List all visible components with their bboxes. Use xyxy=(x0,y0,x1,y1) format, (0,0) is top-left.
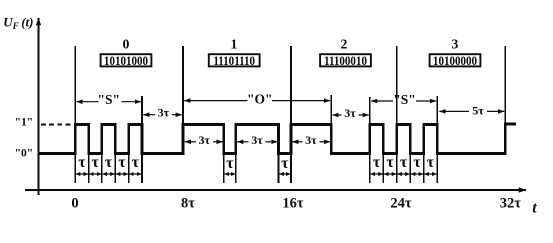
axis label 16tau xyxy=(282,195,304,211)
group number 1 xyxy=(231,37,238,52)
marker boundary line bit24|25 xyxy=(409,124,411,183)
axis label 8tau xyxy=(181,195,195,211)
dashed level-1 reference line xyxy=(41,124,74,126)
tau labels S2 xyxy=(373,154,435,171)
separator 32tau xyxy=(504,46,506,155)
marker boundary line dash1 fall xyxy=(223,124,225,183)
arrow O span xyxy=(184,100,330,102)
group number 0 xyxy=(123,37,130,52)
svg-text:8τ: 8τ xyxy=(181,195,195,211)
axis label 24tau xyxy=(390,195,412,211)
separator 16tau xyxy=(290,46,292,183)
label 3tau gap1 xyxy=(158,106,170,120)
marker boundary line bit4|5 (end of first S) xyxy=(141,96,143,183)
separator 8tau xyxy=(182,46,184,155)
svg-text:0: 0 xyxy=(71,195,78,211)
marker boundary line bit1|2 xyxy=(101,124,103,183)
svg-text:τ: τ xyxy=(78,154,86,171)
svg-text:0: 0 xyxy=(123,37,130,52)
svg-text:τ: τ xyxy=(373,154,381,171)
label U_F(t) xyxy=(3,15,33,31)
svg-text:τ: τ xyxy=(386,154,394,171)
code box group 0 xyxy=(101,54,152,66)
tau width arrows group S2 xyxy=(371,173,437,175)
code box group 2 xyxy=(320,54,371,66)
svg-text:10100000: 10100000 xyxy=(433,53,477,68)
waveform U_F(t) pulse train xyxy=(39,124,517,154)
svg-text:τ: τ xyxy=(92,154,100,171)
marker boundary line dash2 fall xyxy=(278,124,280,183)
code box group 3 xyxy=(430,54,481,66)
arrow 3tau dash2 width xyxy=(237,141,277,143)
marker boundary line bit25|26 xyxy=(423,124,425,183)
svg-text:t: t xyxy=(532,199,537,216)
label 3tau dash1 xyxy=(199,133,211,147)
label level 0 xyxy=(15,148,34,160)
label 5tau xyxy=(472,104,484,118)
marker boundary line bit3|4 xyxy=(128,124,130,183)
svg-text:UF (t): UF (t) xyxy=(3,15,33,31)
svg-text:3τ: 3τ xyxy=(344,106,356,120)
code 11101110 xyxy=(213,53,255,68)
marker boundary line bit22|23 xyxy=(382,124,384,183)
axis label t xyxy=(532,199,537,216)
label 3tau gap2 xyxy=(344,106,356,120)
svg-text:10101000: 10101000 xyxy=(104,53,148,68)
x-axis (time axis) xyxy=(25,189,526,191)
code 10100000 xyxy=(433,53,477,68)
svg-text:3τ: 3τ xyxy=(199,133,211,147)
svg-text:5τ: 5τ xyxy=(472,104,484,118)
arrow 5tau tail gap xyxy=(439,110,504,112)
svg-text:τ: τ xyxy=(413,154,421,171)
svg-text:"S": "S" xyxy=(98,92,121,107)
y-axis xyxy=(38,18,40,195)
axis label 0 xyxy=(71,195,78,211)
group number 2 xyxy=(341,37,348,52)
label 3tau dash3 xyxy=(305,133,317,147)
axis label 32tau xyxy=(500,195,522,211)
arrow S1 span xyxy=(76,101,141,103)
separator 24tau xyxy=(396,46,398,183)
svg-text:τ: τ xyxy=(132,154,140,171)
arrow 3tau gap after S1 xyxy=(143,114,182,116)
marker boundary line start of second S xyxy=(369,97,371,183)
svg-text:"0": "0" xyxy=(15,148,34,160)
svg-text:"1": "1" xyxy=(15,116,34,128)
label 3tau dash2 xyxy=(251,133,263,147)
svg-text:11100010: 11100010 xyxy=(324,53,367,68)
svg-text:τ: τ xyxy=(427,154,435,171)
code 11100010 xyxy=(324,53,367,68)
svg-text:τ: τ xyxy=(105,154,113,171)
label O xyxy=(247,92,273,107)
svg-text:τ: τ xyxy=(118,154,126,171)
marker boundary line end of second S xyxy=(436,96,438,183)
separator t=0 xyxy=(74,46,76,183)
svg-text:24τ: 24τ xyxy=(390,195,412,211)
arrow S2 span xyxy=(371,100,436,102)
marker boundary line bit2|3 xyxy=(114,124,116,183)
tau width arrows group S1 xyxy=(76,173,141,175)
marker boundary line bit0|1 xyxy=(88,124,90,183)
svg-text:"S": "S" xyxy=(393,92,416,107)
svg-text:3: 3 xyxy=(452,37,459,52)
svg-text:"O": "O" xyxy=(247,92,273,107)
svg-text:3τ: 3τ xyxy=(158,106,170,120)
svg-text:τ: τ xyxy=(400,154,408,171)
svg-text:3τ: 3τ xyxy=(251,133,263,147)
svg-text:1: 1 xyxy=(231,37,238,52)
svg-text:τ: τ xyxy=(226,155,234,172)
svg-text:32τ: 32τ xyxy=(500,195,522,211)
svg-text:3τ: 3τ xyxy=(305,133,317,147)
tau width arrows group O gaps xyxy=(225,173,291,175)
code box group 1 xyxy=(209,54,260,66)
svg-text:τ: τ xyxy=(281,155,289,172)
marker boundary line dash2 rise xyxy=(235,124,237,183)
svg-text:2: 2 xyxy=(341,37,348,52)
svg-text:16τ: 16τ xyxy=(282,195,304,211)
svg-text:11101110: 11101110 xyxy=(213,53,255,68)
arrow 3tau dash1 width xyxy=(185,141,223,143)
label S first xyxy=(98,92,121,107)
arrow 3tau gap after O xyxy=(332,114,369,116)
marker boundary line dash3 fall (end of O) xyxy=(330,95,332,155)
label level 1 xyxy=(15,116,34,128)
group number 3 xyxy=(452,37,459,52)
label S second xyxy=(393,92,416,107)
tau labels S1 xyxy=(78,154,139,171)
tau labels O gaps xyxy=(226,155,289,172)
code 10101000 xyxy=(104,53,148,68)
arrow 3tau dash3 width xyxy=(292,141,330,143)
